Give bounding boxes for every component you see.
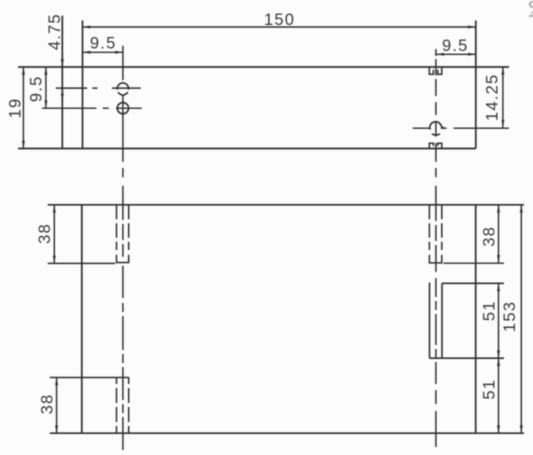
centerline horizontal lower-left hole [42,107,142,109]
hidden slot bracket top-right of top view (left staple) [429,67,433,74]
bottom view top edge [48,204,524,206]
arrowheads 9.5 top-right [436,53,444,56]
right notch left vertical [429,283,431,359]
hidden slot bracket bottom-right of top view (left staple) [429,143,433,148]
arrowheads 38 right [497,205,500,213]
hole H3 right thread bottom arc [432,134,440,135]
centerline horizontal right hole (with 14.25 extension) [413,127,509,129]
svg-text:38: 38 [481,226,499,247]
dimension 19 line [22,67,24,149]
top view plate bottom edge [18,148,476,150]
dimension 38 top-left extension line [48,262,116,264]
svg-text:38: 38 [36,223,54,244]
top view inner vertical line [82,21,84,149]
hidden slot top-left of bottom view left dashed line [116,205,118,250]
hidden slot top-right of bottom view left dashed line [428,205,430,250]
hole H3 right (thread) top arc with runout [430,122,445,130]
hole H1 upper-left thread bottom arc [118,92,128,95]
dimension 14.25 line [502,67,504,128]
svg-text:9.5: 9.5 [90,34,117,52]
arrowheads 38 top-left [53,205,56,213]
hidden slot top-left of bottom view right dashed line [128,205,130,250]
dimension 38 right line [498,205,500,263]
bottom view right edge [475,205,477,433]
hidden slot bottom-left of bottom view cap and extension [50,377,129,379]
arrowheads 19 [22,67,25,75]
hidden slot bracket bottom-right of top view (right staple) [438,143,442,148]
bottom view left edge [81,205,83,433]
top view plate right edge (with extension above) [475,21,477,149]
text 14.25 rotated [483,74,501,121]
dimension 38 bottom-left line [56,378,58,434]
svg-text:51: 51 [481,379,499,400]
text 51 lower rotated [481,379,499,400]
svg-text:14.25: 14.25 [483,74,501,121]
dimension 38 top-left line [53,205,55,264]
svg-text:153: 153 [501,301,519,332]
dimension 9.5 top-left line [83,51,124,53]
dimension 9.5 top-right line [436,53,476,55]
svg-text:150: 150 [264,11,295,29]
svg-text:9.5: 9.5 [442,37,469,55]
centerline horizontal upper-left hole [56,87,141,89]
top view plate left edge (with 4.75 dim line above) [61,16,63,149]
centerline vertical right [435,49,437,447]
top view plate top edge [18,66,509,68]
dimension 153 line [520,205,522,433]
dimension 150 line [83,26,476,28]
text 38 right rotated [481,226,499,247]
hidden slot top-right of bottom view right dashed line [441,205,443,250]
dimension 51 upper line [498,283,500,358]
right notch inner vertical [441,283,443,358]
svg-text:4.75: 4.75 [46,13,64,50]
arrowheads 153 [520,205,523,213]
text 51 upper rotated [481,300,499,321]
hidden slot bottom-left of bottom view right dashed line [128,378,130,434]
dimension 4.75 lower arrow shaft [61,88,63,101]
text 9.5 left rotated [28,76,46,103]
arrowheads 14.25 [501,67,504,75]
centerline vertical left [122,46,124,450]
hidden slot bracket top-right of top view (right staple) [438,67,442,74]
dimension 51 lower line [498,358,500,433]
arrowheads 150 [83,26,91,29]
arrowheads 4.75 (outside) [61,59,64,67]
bottom view bottom edge [50,432,524,434]
text 38 bottom-left rotated [39,394,57,415]
hole H1 upper-left (thread) top arc [117,83,128,90]
right notch bottom edge with extension [430,357,505,359]
right notch top edge with extension [442,282,504,284]
text 153 rotated [501,301,519,332]
watermark corner mark [529,2,533,17]
svg-text:19: 19 [7,98,25,119]
dimension 9.5 left vertical line [45,67,47,108]
arrowheads 51 lower [497,358,500,366]
arrowheads 9.5 top-left [83,51,91,54]
arrowheads 9.5 left vertical [44,67,47,75]
dimension 38 right extension line [444,262,505,264]
arrowheads 38 bottom-left [55,378,58,386]
svg-text:51: 51 [481,300,499,321]
svg-text:38: 38 [39,394,57,415]
arrowheads 51 upper [497,283,500,291]
text 38 top-left rotated [36,223,54,244]
text 4.75 rotated [46,13,64,50]
hole H2 lower-left circle [117,103,128,114]
text 19 rotated [7,98,25,119]
hidden slot bottom-left of bottom view left dashed line [116,378,118,434]
svg-text:9.5: 9.5 [28,76,46,103]
hidden slot top-left of bottom view bottom cap [117,255,129,263]
hidden slot top-right of bottom view bottom cap [429,255,441,263]
